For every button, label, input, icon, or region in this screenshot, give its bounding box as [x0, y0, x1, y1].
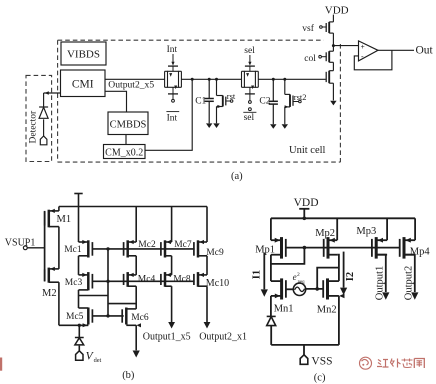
svg-text:CM_x0.2: CM_x0.2 [105, 147, 143, 158]
current arrow I2 [340, 252, 347, 295]
svg-text:Mc8: Mc8 [173, 275, 191, 285]
label Mc4 [138, 275, 156, 285]
wire sel control arrow [248, 55, 251, 66]
supply terminal c [299, 209, 309, 219]
label VDD c [294, 197, 319, 209]
terminal col gate [319, 55, 327, 58]
gate rail p [285, 247, 399, 249]
wire M1 M2 gates [44, 211, 46, 282]
svg-text:col: col [304, 54, 316, 64]
wire rail to Mp4 [414, 218, 416, 240]
node rst2 tap [283, 78, 286, 81]
svg-text:Output2_x1: Output2_x1 [199, 332, 247, 343]
label Output1_x5 [143, 332, 191, 343]
wire feedback to CM_x0.2 [145, 79, 192, 150]
node C1 tap [208, 78, 211, 81]
gate rail row1 [92, 248, 195, 250]
svg-text:(c): (c) [314, 373, 326, 384]
wire amp output [378, 49, 414, 51]
svg-text:(a): (a) [231, 171, 243, 182]
svg-text:VDD: VDD [325, 5, 349, 17]
svg-text:Mc6: Mc6 [131, 313, 149, 323]
svg-text:Mc7: Mc7 [174, 240, 192, 250]
transistor Mp1 [271, 237, 286, 259]
rail top c [271, 217, 415, 219]
label Mc6 [131, 313, 149, 323]
node rst tap [215, 78, 218, 81]
transistor Mc6 [122, 308, 141, 328]
label Output2_x5 [108, 79, 154, 90]
svg-text:Mc10: Mc10 [206, 278, 229, 289]
svg-text:Detector: Detector [28, 110, 38, 144]
wire CMI to CMBDS [105, 91, 127, 112]
label Mc7 [174, 240, 192, 250]
svg-text:Mc3: Mc3 [65, 278, 83, 288]
svg-text:I2: I2 [345, 272, 356, 281]
node row3 bias [106, 314, 109, 317]
label M2 [42, 288, 57, 299]
gate rail row3 [92, 315, 124, 317]
transistor rst2 [285, 94, 293, 108]
wire Int control arrow [171, 54, 174, 66]
terminal rst gate [225, 100, 233, 103]
terminal sel_bar [249, 94, 252, 111]
transistor Mn2 [323, 278, 344, 299]
label rst2 [294, 92, 307, 102]
svg-text:det: det [94, 357, 102, 364]
label Mc9 [206, 248, 224, 258]
detector dashed box [26, 75, 52, 161]
label Vdet [86, 350, 102, 364]
label rst [227, 91, 236, 101]
transistor Mp4 [400, 237, 415, 259]
port Vdet detector [40, 136, 47, 145]
transistor Mn1 [271, 278, 286, 299]
label VSUP1 [5, 238, 36, 249]
ground C1 [206, 123, 212, 128]
svg-text:Mp4: Mp4 [410, 246, 431, 257]
svg-text:M1: M1 [57, 214, 72, 225]
svg-text:Int: Int [167, 45, 178, 55]
label Mp1 [255, 244, 275, 255]
wire Mp4 drain Output2 [404, 255, 415, 292]
svg-text:Mc4: Mc4 [138, 275, 156, 285]
rail bottom c [271, 344, 339, 346]
transistor vsf [326, 22, 333, 33]
diode Dc [267, 316, 276, 325]
wire p-gate to Mp1 drain [271, 248, 305, 264]
terminal VSUP1 [23, 246, 44, 250]
wire rail to Mp1 [270, 218, 272, 240]
svg-text:C2: C2 [259, 97, 270, 107]
wire Mp3 drain Output1 [376, 255, 386, 292]
transistor Mc3 [79, 272, 93, 290]
transistor Mc9 [194, 240, 207, 258]
transistor Mc5 [79, 308, 93, 326]
transmission gate sel [242, 66, 259, 94]
terminal rst2 gate [293, 100, 302, 103]
wire M2 source down [58, 282, 60, 325]
label I2 [345, 272, 356, 281]
label Mc5 [66, 312, 84, 322]
wire rst2 drain [284, 79, 286, 94]
svg-text:M2: M2 [42, 288, 57, 299]
wire rail to M1 [58, 207, 60, 211]
label col [304, 54, 316, 64]
ground SF [330, 101, 336, 106]
node Mn2 gate drain [315, 287, 319, 291]
label Int [167, 45, 178, 55]
svg-text:2: 2 [297, 272, 300, 278]
arrow Output2 c [411, 292, 418, 299]
ground rst [213, 123, 219, 128]
svg-text:rst: rst [227, 91, 236, 101]
wire bias tap left [79, 295, 109, 297]
svg-text:Mc9: Mc9 [206, 248, 224, 258]
wire Mp1 drain down [270, 255, 272, 281]
svg-text:VDD: VDD [294, 197, 319, 209]
svg-text:VSUP1: VSUP1 [5, 238, 36, 249]
label Mc3 [65, 278, 83, 288]
svg-text:CMI: CMI [72, 79, 94, 91]
wire to amplifier [333, 45, 358, 47]
label Mc10 [206, 278, 229, 289]
wire Mn2 source down [338, 296, 340, 345]
wire rail to Mc9 [206, 207, 208, 243]
svg-text:Mp3: Mp3 [356, 226, 376, 237]
transistor Mc7 [161, 240, 172, 258]
wire Mc9 to Mc10 [206, 256, 208, 275]
label Int_bar [166, 112, 179, 124]
label (b) [122, 370, 135, 381]
wire Mp2 drain path [317, 255, 339, 289]
wire bus TG-Int to TG-sel [181, 78, 241, 80]
wire rst drain [216, 79, 218, 95]
svg-text:neq: neq [298, 280, 306, 285]
label Unit cell [289, 145, 326, 156]
wire rail to Mp3 [386, 218, 388, 240]
op-amp U1 [359, 41, 379, 61]
wire detector to CMI [44, 91, 61, 94]
label C2 [259, 97, 270, 107]
node row1 bias [106, 247, 109, 250]
svg-text:Output1: Output1 [374, 266, 385, 300]
wire Mn1 gate to noise [286, 288, 294, 290]
wire Mc7 to Mc8 [171, 256, 173, 275]
wire Mc5 source [59, 323, 88, 327]
wire bus TG-sel to SF gate [258, 78, 325, 80]
rail top b [59, 206, 207, 208]
wire Output2_x5 bus [105, 78, 165, 80]
svg-text:Mp2: Mp2 [315, 228, 335, 239]
label Mp3 [356, 226, 376, 237]
svg-text:Unit cell: Unit cell [289, 145, 326, 156]
svg-text:Output1_x5: Output1_x5 [143, 332, 191, 343]
wire bias vertical [107, 249, 109, 316]
port VSS [300, 355, 308, 365]
label Output2 c [403, 266, 414, 300]
wire Mc4 to Mc6 [135, 286, 137, 309]
terminal Int_bar [172, 94, 175, 102]
noise source e2neq [293, 283, 305, 295]
wire VDD to vsf [332, 15, 334, 22]
label Output2_x1 [199, 332, 247, 343]
block CMBDS [108, 112, 148, 135]
wire Mc6 source down [135, 325, 137, 350]
label Output1 c [374, 266, 385, 300]
svg-text:Output2: Output2 [403, 266, 414, 300]
wire diode to port [78, 346, 80, 351]
svg-text:Out: Out [416, 44, 434, 56]
ground rst2 [282, 124, 288, 129]
block CMI [61, 70, 106, 97]
node C2 tap [272, 78, 275, 81]
svg-text:Mn1: Mn1 [274, 304, 294, 315]
terminal vsf gate [320, 26, 327, 29]
transistor SF source follower [326, 71, 333, 84]
svg-text:VSS: VSS [311, 355, 332, 367]
transistor Mp3 [372, 237, 387, 259]
wire Mc10 source down [206, 286, 208, 322]
svg-text:e: e [293, 272, 297, 282]
label Mc2 [138, 240, 156, 250]
label e2neq [293, 272, 306, 285]
svg-text:(b): (b) [122, 370, 135, 381]
svg-text:vsf: vsf [302, 23, 314, 34]
wire SF source to gnd [332, 83, 334, 100]
current arrow I1 [261, 253, 268, 297]
transistor M2 [45, 267, 59, 283]
node row2 cross [106, 280, 109, 283]
transistor Mc2 [124, 240, 137, 258]
node Vdet junction [78, 324, 81, 327]
arrow Output1_x5 [168, 322, 175, 329]
svg-text:Output2_x5: Output2_x5 [108, 79, 154, 90]
svg-text:sel: sel [244, 46, 255, 56]
label Mp2 [315, 228, 335, 239]
wire Mc8 source down [171, 286, 173, 322]
gate rail row2 [92, 280, 195, 282]
label Detector [28, 110, 38, 144]
wire to diode b [78, 325, 80, 337]
capacitor C1 [205, 79, 214, 123]
svg-text:sel: sel [244, 113, 255, 123]
svg-text:rst2: rst2 [294, 92, 307, 102]
label vsf [302, 23, 314, 34]
svg-text:Int: Int [167, 114, 178, 124]
svg-text:I1: I1 [251, 270, 262, 279]
label M1 [57, 214, 72, 225]
ground C2 [270, 124, 276, 129]
node VDD junction [303, 217, 307, 221]
watermark logo [360, 357, 372, 369]
transistor Mc4 [124, 272, 137, 287]
transistor Mc10 [194, 272, 207, 287]
wire rail to Mc7 [171, 207, 173, 243]
wire amp feedback [354, 50, 392, 70]
wire CMBDS to CM_x0.2 [125, 135, 127, 145]
svg-text:C1: C1 [195, 97, 206, 107]
watermark text [377, 359, 424, 369]
block CM_x0.2 [104, 145, 146, 159]
wire M1 to M2 [58, 227, 60, 269]
port Vdet [76, 351, 83, 360]
node p-gate tap [303, 246, 307, 250]
wire rst2 source to gnd [284, 107, 286, 124]
diode Ddet [75, 338, 84, 345]
wire Mn2 drain stub [338, 279, 340, 282]
arrow Output1 c [382, 292, 389, 299]
wire Mc3 to Mc5 [78, 290, 80, 308]
label Mn2 [317, 305, 337, 316]
wire rail to Mc2 [135, 207, 137, 243]
label Mn1 [274, 304, 294, 315]
supply terminal b [74, 194, 82, 243]
svg-text:CMBDS: CMBDS [110, 120, 147, 131]
svg-text:Mc1: Mc1 [64, 245, 82, 255]
label sel [244, 46, 255, 56]
wire noise to Mn2 gate [306, 288, 324, 290]
label (c) [314, 373, 326, 384]
transistor Mp2 [324, 237, 338, 259]
label VSS [311, 355, 332, 367]
svg-text:VIBDS: VIBDS [67, 49, 100, 61]
svg-text:Mc2: Mc2 [138, 240, 156, 250]
unit cell dashed box [58, 40, 341, 162]
wire col to SF [332, 62, 334, 70]
label C1 [195, 97, 206, 107]
capacitor C2 [269, 79, 278, 124]
wire Mc1 to Mc3 [78, 256, 80, 275]
transistor Mc1 [79, 240, 93, 258]
label Mc1 [64, 245, 82, 255]
block VIBDS [61, 42, 106, 65]
wire Mn1 source down [270, 296, 272, 316]
label Out [416, 44, 434, 56]
wire rst source to gnd [216, 107, 218, 124]
svg-text:Mc5: Mc5 [66, 312, 84, 322]
transistor Mc8 [161, 272, 172, 287]
wire vsf to col [332, 33, 334, 51]
label Mp4 [410, 246, 431, 257]
svg-text:+: + [361, 44, 365, 51]
wire bias tap right [108, 303, 136, 305]
wire rail to Mp2 [336, 218, 338, 240]
label (a) [231, 171, 243, 182]
wire diode to rail c [270, 326, 272, 345]
svg-text:-: - [361, 52, 364, 61]
wire VSS stem [303, 345, 305, 355]
label sel_bar [243, 112, 256, 123]
transmission gate Int [165, 66, 182, 94]
watermark left bar [0, 358, 2, 371]
transistor col [326, 51, 333, 62]
wire Mc2 to Mc4 [135, 256, 137, 275]
transistor rst [217, 96, 226, 109]
ground Mc6 [133, 351, 140, 358]
label I1 [251, 270, 262, 279]
node feedback tap [191, 78, 194, 81]
label VDD a [325, 5, 349, 17]
node amp tap [332, 44, 335, 47]
photodiode D1 [39, 93, 48, 136]
svg-text:Mn2: Mn2 [317, 305, 337, 316]
transistor M1 [45, 209, 59, 228]
label Mc8 [173, 275, 191, 285]
arrow Output2_x1 [204, 322, 211, 329]
